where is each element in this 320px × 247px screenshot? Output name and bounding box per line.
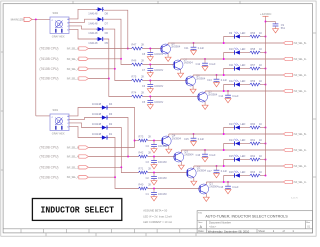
ground (C8) <box>147 57 153 61</box>
wire LED to resistor <box>240 84 250 86</box>
wire LED tap <box>224 128 235 135</box>
port INF_SEL_2L (cpu input) <box>40 67 89 71</box>
wire switch pin to diode <box>69 26 96 29</box>
capacitor C12 0.1uF <box>196 59 216 67</box>
svg-text:2N3904: 2N3904 <box>196 76 206 80</box>
svg-text:INDUCTOR SELECT: INDUCTOR SELECT <box>41 205 115 216</box>
ground (emitter Q8) <box>165 57 171 61</box>
LED D11 <box>229 64 246 71</box>
svg-text:of: of <box>283 229 285 233</box>
ground (C12) <box>202 67 208 71</box>
port INF_SEL_4L (cpu input) <box>40 155 89 159</box>
wire CPU input row 7 <box>88 166 121 168</box>
svg-text:R56: R56 <box>251 32 256 35</box>
svg-text:2K: 2K <box>141 42 144 46</box>
wire CPU input row 1 <box>88 48 131 50</box>
port INF_SEL_1L (cpu input) <box>40 175 89 179</box>
junction base cap <box>153 156 155 158</box>
svg-text:(7610B CPU): (7610B CPU) <box>40 146 59 150</box>
junction cpu row 2 <box>120 58 122 60</box>
capacitor C9 bypass <box>273 22 286 31</box>
wire switch pin to diode <box>69 29 96 39</box>
svg-text:R58: R58 <box>251 48 256 51</box>
svg-text:INF_SEL_8L: INF_SEL_8L <box>67 148 81 150</box>
wire resistor to +12V bus <box>260 175 265 177</box>
svg-text:LED: LED <box>241 32 246 35</box>
wire resistor to base <box>143 96 199 98</box>
transistor Q6 <box>186 73 206 89</box>
diode D4 1N4148 <box>92 102 113 110</box>
svg-text:100/16V: 100/16V <box>158 161 167 164</box>
svg-text:1K: 1K <box>259 139 262 142</box>
diode D5 1N4148 <box>88 37 108 45</box>
svg-text:D7: D7 <box>105 21 109 25</box>
capacitor C3 <box>146 157 168 165</box>
svg-text:SW1: SW1 <box>53 108 59 112</box>
junction cpu row 3 <box>114 68 116 70</box>
wire base row 5 <box>135 140 139 142</box>
INDUCTOR SELECT title box <box>32 199 121 221</box>
svg-text:R73: R73 <box>139 134 144 138</box>
junction main <box>35 18 37 20</box>
wire LED to resistor <box>240 127 250 129</box>
svg-text:LED: LED <box>241 123 246 126</box>
svg-text:100/16V: 100/16V <box>154 53 163 56</box>
svg-text:0.1uF: 0.1uF <box>221 79 228 82</box>
LED D13 <box>229 123 246 130</box>
svg-text:<doc>: <doc> <box>209 224 217 228</box>
svg-text:INF_SEL_1L: INF_SEL_1L <box>67 79 81 81</box>
junction bus <box>265 84 267 86</box>
port INF_SEL_2L (output) <box>283 164 307 168</box>
ground (C18) <box>225 190 231 194</box>
wire collector row to output port <box>193 74 283 76</box>
junction LED tap <box>223 58 225 60</box>
junction base row 6 <box>127 156 129 158</box>
svg-text:100/16V: 100/16V <box>158 145 167 148</box>
svg-text:D12: D12 <box>229 80 234 83</box>
diode D7 1N4148 <box>88 17 108 25</box>
svg-text:C16: C16 <box>196 154 201 157</box>
svg-text:(7610B CPU): (7610B CPU) <box>40 77 59 81</box>
svg-text:2N3904: 2N3904 <box>208 92 218 96</box>
svg-text:1N4148: 1N4148 <box>92 102 102 106</box>
svg-text:R47: R47 <box>132 42 137 46</box>
svg-text:2K: 2K <box>141 90 144 94</box>
svg-text:LED Vf = 2V, Imax 12mA: LED Vf = 2V, Imax 12mA <box>143 214 172 218</box>
svg-text:1N4148: 1N4148 <box>88 11 98 15</box>
svg-text:INF_SEL_4L: INF_SEL_4L <box>67 59 81 61</box>
wire diode D2 cathode to base row 7 <box>108 128 138 173</box>
junction base cap <box>149 96 151 98</box>
capacitor C13 0.1uF <box>207 75 227 83</box>
svg-text:D5: D5 <box>105 41 109 45</box>
wire CPU input row 3 <box>88 68 114 70</box>
capacitor C2 <box>146 173 168 181</box>
svg-text:INF_SEL_4L: INF_SEL_4L <box>67 157 81 159</box>
wire collector row to output port <box>194 165 283 167</box>
transistor Q7 <box>173 57 193 73</box>
svg-text:R74: R74 <box>132 90 137 94</box>
svg-text:R63: R63 <box>251 171 256 174</box>
wire resistor to base <box>148 172 188 174</box>
svg-text:LED: LED <box>241 171 246 174</box>
ground (C7) <box>147 73 153 77</box>
junction collector cap <box>216 74 218 76</box>
wire CPU input row 5 <box>88 147 134 149</box>
wire CPU input row 8 <box>88 176 115 178</box>
wire resistor to +12V bus <box>260 143 265 145</box>
wire LED to resistor <box>240 143 250 145</box>
junction collector cap <box>216 165 218 167</box>
svg-text:1N4148: 1N4148 <box>92 112 102 116</box>
wire CPU input row 4 <box>88 78 108 80</box>
svg-text:1K: 1K <box>259 123 262 126</box>
junction collector cap <box>193 42 195 44</box>
wire switch pin to diode <box>69 19 96 22</box>
diode D8 1N4148 <box>88 7 108 15</box>
svg-text:R59: R59 <box>251 80 256 83</box>
wire LED tap <box>224 53 235 60</box>
svg-text:0.1uF: 0.1uF <box>198 47 205 50</box>
transistor Q2 <box>186 165 206 181</box>
svg-text:1K: 1K <box>259 48 262 51</box>
svg-text:1K: 1K <box>259 32 262 35</box>
svg-text:1N4148: 1N4148 <box>92 122 102 126</box>
svg-text:2N3904: 2N3904 <box>209 184 219 188</box>
svg-text:C13: C13 <box>207 79 212 82</box>
wire CPU input row 6 <box>88 156 128 158</box>
wire resistor to base <box>148 188 200 190</box>
wire LED tap <box>224 176 235 183</box>
diode D3 1N4148 <box>92 112 113 120</box>
svg-text:2N3904: 2N3904 <box>171 44 181 48</box>
ground (C14) <box>225 99 231 103</box>
ground (C16) <box>202 158 208 162</box>
resistor R63 1K <box>250 171 263 177</box>
ground (emitter Q6) <box>190 89 196 93</box>
svg-text:561: 561 <box>281 27 286 30</box>
LED D12 <box>229 80 246 87</box>
junction base row 1 <box>127 48 129 50</box>
wire resistor to +12V bus <box>260 127 265 129</box>
svg-text:2N3904: 2N3904 <box>184 152 194 156</box>
wire resistor to base <box>143 64 175 66</box>
resistor R57 1K <box>250 64 263 70</box>
svg-text:0.1uF: 0.1uF <box>232 186 239 189</box>
capacitor C4 <box>146 141 168 149</box>
svg-text:R40: R40 <box>139 182 144 186</box>
junction cpu row 8 <box>114 176 116 178</box>
wire LED tap <box>224 85 235 92</box>
svg-text:1N4148: 1N4148 <box>88 21 98 25</box>
svg-text:INF_SEL_1L: INF_SEL_1L <box>294 182 308 184</box>
ground (emitter Q2) <box>191 181 197 185</box>
port INF_SEL_1L (output) <box>283 180 307 184</box>
junction bypass cap <box>265 21 267 23</box>
svg-text:INF_SEL_2L: INF_SEL_2L <box>294 75 308 77</box>
svg-text:R46: R46 <box>132 58 137 62</box>
svg-text:R57: R57 <box>251 64 256 67</box>
svg-text:INF_SEL_8L: INF_SEL_8L <box>67 49 81 51</box>
port INF_SEL_8L (output) <box>283 41 307 45</box>
wire resistor to +12V bus <box>260 52 265 54</box>
svg-text:(7610B CPU): (7610B CPU) <box>40 67 59 71</box>
wire diode cathode to base row 3 <box>104 29 132 80</box>
svg-text:MAIN1250: MAIN1250 <box>11 18 26 22</box>
svg-text:LED: LED <box>241 155 246 158</box>
capacitor C15 0.1uF <box>184 134 204 142</box>
svg-text:R62: R62 <box>251 155 256 158</box>
ground (emitter Q5) <box>202 105 208 109</box>
title block <box>197 211 313 234</box>
svg-text:INF_SEL_4L: INF_SEL_4L <box>294 150 308 152</box>
svg-text:LED CURRENT = 10 mA: LED CURRENT = 10 mA <box>143 220 172 224</box>
svg-text:D8: D8 <box>105 11 109 15</box>
LED D16 <box>229 171 246 178</box>
svg-text:GRAY HEX: GRAY HEX <box>52 133 65 136</box>
resistor R71 2K <box>139 166 152 174</box>
ground (emitter Q1) <box>203 197 209 201</box>
svg-text:C17: C17 <box>207 170 212 173</box>
capacitor C17 0.1uF <box>207 166 227 174</box>
wire diode cathode to base row 4 <box>104 39 132 97</box>
wire LED tap <box>224 69 235 76</box>
wire switch pin to diode <box>69 118 100 120</box>
LED D9 <box>229 32 246 39</box>
svg-text:SW2: SW2 <box>53 11 59 15</box>
svg-text:100/16V: 100/16V <box>158 177 167 180</box>
junction collector cap <box>204 149 206 151</box>
svg-text:INF_SEL_4L: INF_SEL_4L <box>294 59 308 61</box>
wire diode D4 cathode / cpu join <box>108 108 134 148</box>
junction base cap <box>153 188 155 190</box>
ground (C3) <box>151 165 157 169</box>
svg-text:100/16V: 100/16V <box>154 101 163 104</box>
resistor R62 1K <box>250 155 263 161</box>
wire switch pin to diode <box>69 108 100 116</box>
svg-text:0.1uF: 0.1uF <box>209 154 216 157</box>
svg-text:R61: R61 <box>251 139 256 142</box>
junction base cap <box>149 48 151 50</box>
svg-text:100/16V: 100/16V <box>154 85 163 88</box>
junction base cap <box>153 140 155 142</box>
svg-text:INF_SEL_8L: INF_SEL_8L <box>294 43 308 45</box>
svg-text:2K: 2K <box>148 166 151 170</box>
svg-text:(7610B CPU): (7610B CPU) <box>40 47 59 51</box>
resistor R58 1K <box>250 48 263 54</box>
port INF_SEL_4L (cpu input) <box>40 57 89 61</box>
resistor R40 2K <box>139 182 152 190</box>
junction LED tap <box>223 149 225 151</box>
port INF_SEL_8L (output) <box>283 132 307 136</box>
port INF_SEL_2L (output) <box>283 73 307 77</box>
resistor R56 1K <box>250 32 263 38</box>
junction base cap <box>149 64 151 66</box>
transistor Q4 <box>161 133 181 149</box>
junction bus <box>265 36 267 38</box>
svg-text:1N4148: 1N4148 <box>88 41 98 45</box>
wire diode cathode to base row 2 <box>104 19 132 64</box>
svg-text:(7610B CPU): (7610B CPU) <box>40 166 59 170</box>
svg-text:2K: 2K <box>148 182 151 186</box>
svg-text:1N4148: 1N4148 <box>88 31 98 35</box>
svg-text:2N3904: 2N3904 <box>184 60 194 64</box>
wire CPU input row 2 <box>88 58 121 60</box>
junction bus <box>265 143 267 145</box>
junction LED tap <box>223 74 225 76</box>
svg-text:AUTO-TUNER, INDUCTOR SELECT CO: AUTO-TUNER, INDUCTOR SELECT CONTROLS <box>205 215 288 219</box>
junction LED tap <box>223 90 225 92</box>
port MAIN1250 (main input) <box>11 17 32 21</box>
svg-text:R42: R42 <box>139 150 144 154</box>
junction collector cap <box>193 133 195 135</box>
port INF_SEL_4L (output) <box>283 148 307 152</box>
diode D6 1N4148 <box>88 27 108 35</box>
wire LED tap <box>224 37 235 44</box>
svg-text:0.1uF: 0.1uF <box>221 170 228 173</box>
svg-text:2K: 2K <box>148 134 151 138</box>
svg-text:D15: D15 <box>229 155 234 158</box>
ground (emitter Q3) <box>178 165 184 169</box>
ground (C11) <box>191 51 197 55</box>
svg-text:R71: R71 <box>139 166 144 170</box>
ground (C17) <box>214 174 220 178</box>
svg-text:+12VDC: +12VDC <box>260 12 272 16</box>
junction bus <box>265 68 267 70</box>
junction bus <box>265 127 267 129</box>
ground (C6) <box>147 89 153 93</box>
wire resistor to base <box>143 48 162 50</box>
LED D15 <box>229 155 246 162</box>
ground (emitter Q7) <box>178 73 184 77</box>
svg-text:GRAY HEX: GRAY HEX <box>52 36 65 39</box>
wire collector row to output port <box>206 181 283 183</box>
wire main bus down to SW1 <box>35 19 37 116</box>
junction collector cap <box>204 58 206 60</box>
svg-text:D4: D4 <box>109 102 113 106</box>
svg-text:0.1uF: 0.1uF <box>232 95 239 98</box>
resistor R61 1K <box>250 139 263 145</box>
ground (C15) <box>191 142 197 146</box>
resistor R47 2K <box>132 42 145 50</box>
svg-text:D13: D13 <box>229 123 234 126</box>
ground (C2) <box>151 181 157 185</box>
wire LED to resistor <box>240 36 250 38</box>
svg-text:2N3904: 2N3904 <box>172 136 182 140</box>
junction LED tap <box>223 133 225 135</box>
svg-text:C12: C12 <box>196 63 201 66</box>
junction bus <box>265 175 267 177</box>
svg-text:INF_SEL_1L: INF_SEL_1L <box>294 91 308 93</box>
resistor R42 2K <box>139 150 152 158</box>
wire resistor to base <box>148 140 163 142</box>
svg-text:D11: D11 <box>229 64 234 67</box>
port INF_SEL_8L (cpu input) <box>40 146 89 150</box>
resistor R74 2K <box>132 90 145 98</box>
svg-text:ASSUME BETA = 50: ASSUME BETA = 50 <box>143 209 168 213</box>
capacitor C18 0.1uF <box>219 182 239 190</box>
transistor Q8 <box>161 41 181 57</box>
wire to SW1 common <box>36 115 50 117</box>
junction collector cap <box>227 181 229 183</box>
junction bus <box>265 159 267 161</box>
svg-text:2K: 2K <box>148 150 151 154</box>
wire LED tap <box>224 144 235 151</box>
svg-text:C15: C15 <box>184 138 189 141</box>
svg-text:INF_SEL_1L: INF_SEL_1L <box>67 177 81 179</box>
ground (C5) <box>147 105 153 109</box>
wire LED to resistor <box>240 52 250 54</box>
svg-text:INF_SEL_8L: INF_SEL_8L <box>294 134 308 136</box>
svg-text:(7610B CPU): (7610B CPU) <box>40 155 59 159</box>
resistor R75 2K <box>132 74 145 82</box>
junction base cap <box>153 172 155 174</box>
svg-text:D16: D16 <box>229 171 234 174</box>
svg-text:2N3904: 2N3904 <box>197 168 207 172</box>
ground (C1) <box>151 197 157 201</box>
wire to bypass cap <box>266 21 276 23</box>
svg-text:Wednesday, September 08, 2010: Wednesday, September 08, 2010 <box>208 229 250 233</box>
rotary hex switch SW2 <box>50 11 69 39</box>
svg-text:1K: 1K <box>259 80 262 83</box>
svg-text:(7610B CPU): (7610B CPU) <box>40 175 59 179</box>
wire resistor to base <box>148 156 175 158</box>
resistor R46 2K <box>132 58 145 66</box>
svg-text:INF_SEL_2L: INF_SEL_2L <box>67 69 81 71</box>
resistor R59 1K <box>250 80 263 86</box>
svg-text:D3: D3 <box>109 112 113 116</box>
junction base row 5 <box>134 140 136 142</box>
svg-text:LED: LED <box>241 48 246 51</box>
svg-text:1K: 1K <box>259 171 262 174</box>
svg-text:INF_SEL_2L: INF_SEL_2L <box>67 167 81 169</box>
junction LED tap <box>223 42 225 44</box>
svg-text:1K: 1K <box>259 64 262 67</box>
svg-text:1K: 1K <box>259 155 262 158</box>
port INF_SEL_8L (cpu input) <box>40 47 89 51</box>
resistor R60 1K <box>250 123 263 129</box>
wire resistor to +12V bus <box>260 68 265 70</box>
capacitor C5 <box>142 97 164 105</box>
svg-text:C14: C14 <box>219 95 224 98</box>
junction cpu row 7 <box>120 166 122 168</box>
wire collector row to output port <box>168 42 283 44</box>
wire resistor to base <box>143 80 187 82</box>
wire collector row to output port <box>205 90 283 92</box>
svg-text:D14: D14 <box>229 139 234 142</box>
wire diode D1 cathode to base row 8 <box>108 138 138 189</box>
svg-text:100/16V: 100/16V <box>154 69 163 72</box>
transistor Q1 <box>199 181 219 197</box>
svg-text:R75: R75 <box>132 74 137 78</box>
junction LED tap <box>223 181 225 183</box>
junction base cap <box>149 80 151 82</box>
wire collector row to output port <box>169 133 283 135</box>
wire collector row to output port <box>181 58 284 60</box>
diode D1 1N4148 <box>92 132 113 140</box>
svg-text:Date:: Date: <box>198 229 204 233</box>
svg-text:LED: LED <box>241 80 246 83</box>
bottom zone strip line <box>3 228 313 230</box>
svg-text:D1: D1 <box>109 132 113 136</box>
svg-text:2K: 2K <box>141 74 144 78</box>
port INF_SEL_4L (output) <box>283 57 307 61</box>
wire switch pin to diode <box>69 123 100 128</box>
wire LED tap <box>224 160 235 167</box>
capacitor C8 <box>142 49 164 57</box>
LED D14 <box>229 139 246 146</box>
